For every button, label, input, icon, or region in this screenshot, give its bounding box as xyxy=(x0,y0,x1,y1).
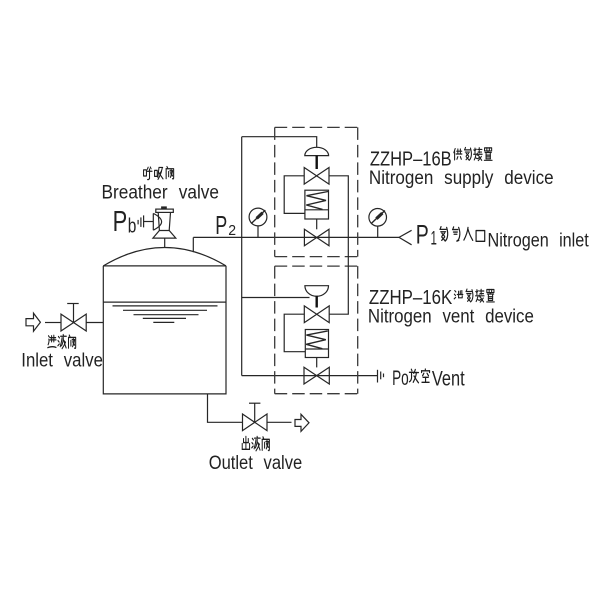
liquid level xyxy=(103,302,226,322)
wire main P2/P1 line xyxy=(193,236,399,238)
wire vent bypass left xyxy=(284,314,305,352)
vent actuator stem xyxy=(316,296,318,308)
wire vent pilot impulse line xyxy=(242,297,310,299)
wire spring box to valve xyxy=(316,219,318,229)
label breather valve CN xyxy=(144,167,174,180)
vent pilot valve V3 xyxy=(304,306,329,323)
svg-text:Nitrogen inlet: Nitrogen inlet xyxy=(488,229,590,251)
supply actuator stem xyxy=(316,156,318,169)
tank T1 xyxy=(103,248,226,394)
svg-text:2: 2 xyxy=(228,222,236,239)
flow arrow nitrogen inlet xyxy=(399,230,412,245)
dashed box nitrogen vent device xyxy=(275,266,358,394)
breather Pb vent ticks xyxy=(138,215,144,227)
wire Pb to breather xyxy=(144,221,154,223)
vent shutoff valve V4 xyxy=(304,367,329,384)
inlet flow arrow xyxy=(26,313,40,331)
svg-text:Nitrogen vent device: Nitrogen vent device xyxy=(368,305,534,327)
wire supply bypass left xyxy=(284,176,305,214)
breather valve B1 xyxy=(153,208,176,238)
breather valve stem xyxy=(164,238,166,248)
svg-text:Nitrogen supply device: Nitrogen supply device xyxy=(369,167,554,189)
dashed box nitrogen supply device xyxy=(275,127,358,256)
gauge P2 xyxy=(249,208,267,237)
svg-text:P: P xyxy=(215,210,227,240)
outlet valve xyxy=(243,403,268,430)
svg-text:Outlet valve: Outlet valve xyxy=(209,453,303,474)
label outlet valve CN xyxy=(242,436,269,450)
svg-text:P: P xyxy=(416,220,429,250)
inlet valve xyxy=(61,304,86,332)
wire supply valve outlet to vent valve xyxy=(329,176,348,314)
svg-text:Po: Po xyxy=(392,367,409,390)
label nitrogen inlet CN xyxy=(440,227,485,242)
wire tank to P2 line xyxy=(192,237,194,252)
svg-text:1: 1 xyxy=(431,229,437,250)
vent symbol Po xyxy=(378,370,384,383)
wire tank bottom outlet xyxy=(208,394,243,422)
label inlet valve CN xyxy=(48,335,76,349)
wire vent line xyxy=(242,375,378,377)
svg-text:P: P xyxy=(113,206,128,238)
wire outlet valve to arrow xyxy=(267,421,292,423)
supply shutoff valve V2 xyxy=(304,229,329,246)
supply actuator dome xyxy=(305,147,329,155)
wire top horizontal to supply actuator xyxy=(242,137,317,148)
gauge P1 xyxy=(369,209,387,238)
vent regulator spring box xyxy=(305,330,328,358)
outlet flow arrow xyxy=(295,414,309,431)
wire inlet valve to tank xyxy=(86,322,103,324)
svg-text:Vent: Vent xyxy=(432,367,465,390)
svg-text:Inlet valve: Inlet valve xyxy=(21,350,103,371)
wire inlet arrow to valve xyxy=(45,322,61,324)
svg-text:Breather valve: Breather valve xyxy=(102,183,220,204)
supply regulator spring box xyxy=(305,190,329,219)
wire spring box to vent valve xyxy=(316,358,318,368)
supply pilot valve V1 xyxy=(304,168,329,185)
wire left vertical line xyxy=(241,137,243,376)
svg-text:b: b xyxy=(128,216,137,238)
vent actuator dome inverted xyxy=(305,286,329,297)
